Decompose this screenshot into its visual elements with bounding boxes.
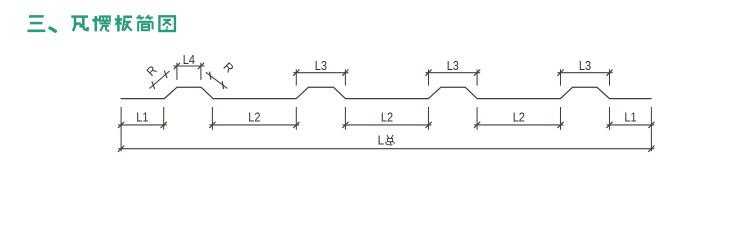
title: wa (tile) — [71, 17, 88, 31]
title: tu (drawing) — [159, 16, 175, 31]
dimension R radius (left corner) — [144, 63, 170, 89]
title: dun-comma — [50, 28, 55, 31]
extension line right (to total dimension) — [650, 130, 652, 151]
dimension L3 (rib 3) — [425, 58, 480, 86]
svg-text:L1: L1 — [136, 109, 148, 124]
svg-text:L4: L4 — [183, 52, 195, 67]
dimension L1 (right flat) — [606, 107, 654, 130]
title: jian (simple) — [138, 15, 153, 31]
svg-text:L: L — [378, 133, 385, 148]
dimension L4 (rib 1 crest) — [173, 52, 204, 80]
title: san (three) — [27, 16, 45, 30]
svg-text:L3: L3 — [447, 58, 459, 73]
dimension L2 (first valley) — [209, 107, 299, 130]
svg-text:L2: L2 — [248, 109, 260, 124]
dimension L3 (rib 2) — [293, 58, 348, 86]
profile polyline: corrugated sheet section — [121, 87, 652, 98]
svg-text:L3: L3 — [579, 58, 591, 73]
dimension L2 (second valley) — [342, 107, 431, 130]
title: leng (stunned) — [93, 16, 110, 31]
dimension L3 (rib 4) — [557, 58, 612, 86]
extension line left (to total dimension) — [120, 130, 122, 151]
svg-text:R: R — [221, 60, 237, 76]
svg-text:L1: L1 — [624, 109, 636, 124]
dimension L-total (overall width) — [118, 133, 655, 152]
svg-text:L2: L2 — [513, 109, 525, 124]
svg-text:R: R — [144, 63, 160, 79]
dimension L1 (left flat) — [118, 107, 167, 130]
title: ban (board) — [115, 15, 132, 31]
dimension L2 (third valley) — [474, 107, 564, 130]
svg-text:L3: L3 — [315, 58, 327, 73]
dimension R radius (right corner) — [206, 60, 237, 89]
svg-text:L2: L2 — [381, 109, 393, 124]
zong glyph (total) — [386, 135, 395, 145]
